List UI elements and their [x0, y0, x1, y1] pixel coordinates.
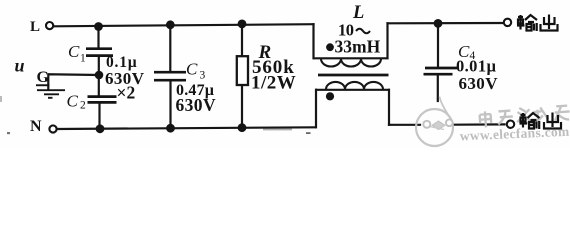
node junction C3 bottom: [166, 124, 175, 133]
node junction C3 top: [166, 20, 175, 29]
terminal L circle: [46, 22, 53, 29]
svg-text:3: 3: [200, 70, 206, 82]
watermark logo circle: [416, 97, 453, 147]
label output top (CJK drawn): [517, 15, 558, 32]
svg-text:C: C: [67, 92, 79, 111]
wire ground branch: [48, 74, 99, 89]
node junction R top: [238, 20, 247, 29]
wire choke bottom-left lead: [315, 90, 317, 128]
terminal output top circle: [504, 19, 511, 26]
watermark chinese text 电子发烧友: [479, 104, 570, 127]
svg-text:u: u: [15, 56, 25, 76]
输 top: [517, 15, 525, 30]
node junction C1 top: [94, 22, 103, 31]
wire R top lead: [241, 24, 243, 56]
svg-text:0.01µ: 0.01µ: [456, 57, 496, 76]
wire choke bottom-right lead: [388, 90, 390, 125]
resistor R body: [237, 56, 248, 85]
inductor core line: [318, 74, 389, 77]
出 top: [541, 15, 558, 31]
wire choke top-left lead: [312, 24, 314, 58]
terminal N circle: [49, 125, 56, 132]
svg-text:G: G: [37, 69, 50, 86]
出 bottom: [544, 113, 561, 129]
wire C4 lead: [437, 23, 439, 67]
ground symbol: [37, 90, 65, 98]
wire top rail: [54, 24, 314, 26]
wire C3 top lead: [169, 25, 171, 71]
label output bottom (CJK drawn): [520, 113, 562, 130]
phase dot top winding: [326, 43, 334, 51]
svg-text:630V: 630V: [176, 95, 217, 115]
svg-text:L: L: [30, 19, 40, 35]
wire C1 top lead: [97, 26, 99, 47]
svg-text:1: 1: [80, 53, 86, 65]
node junction C4 tap: [434, 19, 443, 28]
svg-text:×2: ×2: [117, 82, 136, 102]
svg-text:C: C: [186, 60, 198, 79]
svg-text:630V: 630V: [459, 74, 499, 93]
wire top-right output: [388, 22, 504, 24]
wire choke top-right lead: [386, 23, 388, 58]
capacitor C2 plates: [88, 97, 117, 103]
wire R bottom lead: [241, 85, 243, 128]
wire C1-C2 middle lead: [98, 57, 100, 96]
wire bottom rail: [58, 127, 316, 129]
wire bottom-right output segment 1: [389, 124, 420, 126]
inductor L top winding: [314, 58, 388, 66]
输 bottom: [520, 113, 528, 128]
node junction ground tap between C1 C2: [95, 71, 104, 80]
svg-text:33mH: 33mH: [335, 36, 381, 56]
wire C3 bottom lead: [169, 82, 171, 129]
terminal output bottom circle: [507, 121, 514, 128]
wire C2 bottom lead: [98, 104, 100, 129]
capacitor C4 plates: [424, 68, 458, 74]
svg-text:L: L: [352, 3, 364, 23]
capacitor C3 plates: [154, 72, 186, 80]
svg-text:N: N: [30, 118, 42, 135]
wire bottom-right output segment 2: [455, 123, 505, 125]
capacitor C1 plates: [86, 49, 113, 56]
svg-text:1/2W: 1/2W: [251, 73, 296, 94]
inductor L bottom winding: [316, 82, 389, 90]
wire C4 bottom lead stub: [437, 76, 439, 102]
node junction R bottom: [238, 123, 247, 132]
svg-text:C: C: [68, 42, 80, 61]
node junction C2 bottom: [96, 124, 105, 133]
phase dot bottom winding: [326, 92, 334, 100]
svg-text:2: 2: [80, 100, 86, 112]
